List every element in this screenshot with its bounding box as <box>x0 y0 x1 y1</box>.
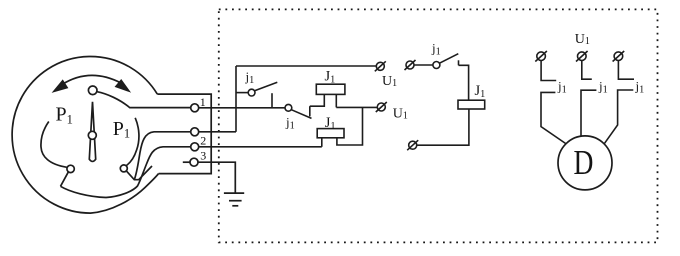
svg-text:3: 3 <box>200 148 206 162</box>
svg-text:2: 2 <box>200 134 206 148</box>
svg-text:1: 1 <box>200 95 206 109</box>
svg-text:D: D <box>574 143 594 182</box>
